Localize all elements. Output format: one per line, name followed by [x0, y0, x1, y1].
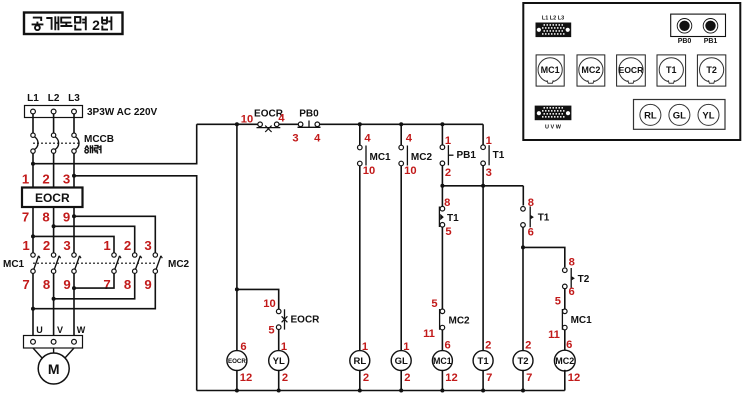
svg-text:10: 10 — [263, 298, 275, 310]
wire EOCR out 7 down to MC1 pole1 — [32, 207, 34, 253]
svg-text:T1: T1 — [478, 356, 490, 367]
wire L1 node to control top rail — [33, 124, 197, 163]
wire MC1 b-contact to MC2 coil — [564, 330, 566, 352]
MCCB label — [84, 134, 114, 154]
node line1 to MC2 pole1 — [31, 234, 35, 238]
node junction PB1 — [440, 184, 444, 188]
svg-text:11: 11 — [548, 329, 560, 341]
wire T1 contact down to T2 node — [522, 227, 524, 247]
svg-text:2: 2 — [363, 372, 369, 384]
svg-text:U V W: U V W — [545, 125, 562, 131]
wire T2 coil to bottom rail — [522, 370, 524, 391]
svg-text:V: V — [57, 325, 63, 335]
T1 coil — [473, 351, 493, 371]
svg-text:9: 9 — [63, 210, 70, 225]
wire junction corner down to T1 timer contact (T2 chain) — [522, 186, 524, 206]
wire U to motor — [33, 348, 43, 359]
wire line2 to MC2 pole2 top — [54, 226, 135, 253]
svg-text:U: U — [36, 325, 43, 335]
wire EOCR coil branch — [236, 124, 238, 351]
svg-text:T1: T1 — [538, 213, 550, 224]
wire MCCB2 to EOCR — [53, 153, 55, 188]
svg-text:3: 3 — [292, 133, 298, 145]
PB0 NC pushbutton — [292, 108, 321, 144]
MC2 a-contact branch — [399, 124, 433, 177]
node MC2-8 line2 — [52, 297, 56, 301]
node bottom rail MC1 — [440, 389, 444, 393]
node MC2-9 line1 — [31, 307, 35, 311]
motor terminal block UVW — [24, 336, 83, 349]
terminal block L1L2L3 — [536, 23, 572, 38]
MC2 power contact pole3 — [153, 253, 162, 274]
svg-text:2: 2 — [525, 340, 531, 352]
node on L1 feeding control rail — [31, 162, 35, 166]
L1 L2 L3 source labels — [27, 93, 80, 104]
svg-text:5: 5 — [268, 325, 274, 337]
wire YL coil to bottom rail — [278, 370, 280, 391]
top rail — [197, 123, 483, 125]
svg-text:12: 12 — [240, 372, 252, 384]
wire MC1 contact to RL coil — [359, 166, 361, 352]
wire EOCR contact to YL coil — [278, 329, 280, 351]
svg-text:10: 10 — [241, 114, 253, 126]
node T2 branch — [521, 245, 525, 249]
svg-text:6: 6 — [566, 339, 572, 351]
source terminal block TB1 — [25, 106, 83, 118]
node top rail MC2 branch — [399, 122, 403, 126]
panel enclosure — [523, 3, 740, 140]
node line3 to MC2 pole3 — [72, 214, 76, 218]
node on L3 feeding control bottom rail — [72, 174, 76, 178]
svg-text:10: 10 — [404, 165, 416, 177]
svg-text:6: 6 — [568, 286, 574, 298]
svg-text:L1 L2 L3: L1 L2 L3 — [542, 16, 564, 22]
wire T1 coil to bottom rail — [482, 370, 484, 391]
svg-text:7: 7 — [22, 277, 29, 292]
MC2 power contact pole1 — [112, 253, 121, 274]
MC2 power contact pole2 — [133, 253, 142, 274]
MCCB linkage dashed line — [33, 142, 80, 144]
EOCR coil — [227, 351, 247, 371]
pushbutton box PB0 PB1 — [671, 14, 726, 45]
wire junction down to T1 timer contact (MC1 chain) — [441, 186, 443, 207]
svg-text:7: 7 — [486, 372, 492, 384]
PB1 NO pushbutton branch — [440, 124, 476, 179]
svg-text:8: 8 — [444, 197, 450, 209]
svg-text:3: 3 — [63, 238, 70, 253]
wire MCCB3 to EOCR — [73, 153, 75, 188]
svg-text:MCCB: MCCB — [84, 134, 114, 145]
svg-text:7: 7 — [103, 277, 110, 292]
wire V to motor — [53, 348, 55, 353]
svg-text:2: 2 — [42, 172, 49, 187]
EOCR block (overcurrent relay) — [22, 188, 83, 208]
MC1 power contact pole2 — [51, 253, 60, 274]
wire EOCR out 8 down to MC1 pole2 — [53, 207, 55, 253]
T1 timer contact (8-6) — [521, 197, 550, 239]
EOCR a-contact to YL — [263, 298, 320, 337]
node bottom rail T1 — [481, 389, 485, 393]
wire T2 contact to MC1 b-contact — [564, 289, 566, 310]
svg-text:4: 4 — [364, 133, 371, 145]
svg-text:EOCR: EOCR — [228, 358, 246, 365]
RL coil — [350, 351, 370, 371]
svg-text:PB1: PB1 — [704, 38, 718, 45]
svg-text:MC2: MC2 — [411, 152, 433, 163]
pin labels 1 2 3 above MC1 power contacts — [22, 238, 70, 253]
svg-text:L1: L1 — [27, 93, 39, 104]
wire W to motor — [65, 348, 75, 359]
svg-text:T1: T1 — [493, 150, 505, 161]
svg-text:6: 6 — [444, 340, 450, 352]
svg-text:MC2: MC2 — [168, 259, 190, 270]
svg-text:1: 1 — [103, 238, 110, 253]
svg-text:MC1: MC1 — [571, 315, 593, 326]
svg-text:10: 10 — [363, 165, 375, 177]
svg-text:7: 7 — [22, 210, 29, 225]
lamp box RL GL YL — [634, 100, 726, 130]
svg-text:MC2: MC2 — [449, 316, 471, 327]
svg-text:T1: T1 — [447, 213, 459, 224]
svg-text:9: 9 — [63, 277, 70, 292]
svg-text:EOCR: EOCR — [35, 191, 70, 205]
wire line1 to MC2 pole1 top — [33, 236, 114, 253]
svg-text:3: 3 — [144, 238, 151, 253]
svg-text:5: 5 — [555, 296, 561, 308]
relay socket EOCR — [617, 55, 646, 86]
node top rail EOCR coil branch — [235, 122, 239, 126]
MCCB pole 2 — [51, 133, 58, 153]
wire MC1 coil to bottom rail — [441, 370, 443, 391]
svg-text:YL: YL — [702, 110, 714, 121]
relay socket T1 — [657, 55, 686, 86]
MC2 coil — [554, 350, 575, 371]
svg-text:1: 1 — [22, 238, 29, 253]
svg-text:L3: L3 — [68, 93, 80, 104]
wire EOCR coil to bottom rail — [236, 370, 238, 391]
title box "공개도면 2번" — [24, 13, 123, 35]
motor M — [38, 353, 69, 384]
svg-text:PB0: PB0 — [299, 108, 319, 119]
node junction T1 — [481, 184, 485, 188]
svg-text:8: 8 — [43, 277, 50, 292]
node bottom rail EOCR — [235, 389, 239, 393]
svg-text:1: 1 — [486, 135, 492, 147]
node top rail PB1 branch — [440, 122, 444, 126]
svg-text:6: 6 — [528, 227, 534, 239]
svg-text:T2: T2 — [578, 274, 590, 285]
wire MC2 coil to bottom rail — [564, 370, 566, 391]
svg-text:4: 4 — [278, 113, 285, 125]
MC1 power contact pole1 — [31, 253, 40, 274]
svg-text:5: 5 — [445, 226, 451, 238]
node MC2-7 line3 — [72, 286, 76, 290]
svg-text:1: 1 — [445, 135, 451, 147]
svg-text:2: 2 — [282, 372, 288, 384]
wire L3 drop to MCCB — [73, 114, 75, 133]
svg-text:MC1: MC1 — [541, 65, 560, 75]
relay socket MC2 — [577, 55, 605, 86]
wire T1 contact to junction — [482, 166, 484, 186]
wire MC2 pole2 out to line2 — [54, 273, 135, 299]
svg-text:12: 12 — [445, 372, 457, 384]
svg-text:12: 12 — [568, 372, 580, 384]
svg-text:11: 11 — [423, 328, 435, 340]
MC1 a-contact branch — [358, 124, 392, 177]
wire MC2 pole1 out to line3 — [74, 273, 114, 288]
svg-text:MC2: MC2 — [581, 65, 600, 75]
svg-text:8: 8 — [42, 210, 49, 225]
svg-text:T1: T1 — [666, 65, 677, 75]
pin labels 7 8 9 below MC1 — [22, 277, 70, 292]
svg-text:RL: RL — [644, 110, 657, 121]
wire RL coil to bottom rail — [359, 370, 361, 391]
svg-text:T2: T2 — [517, 356, 528, 367]
wire MCCB1 to EOCR — [32, 153, 34, 188]
MC2 b-contact (5-11) — [423, 298, 470, 340]
terminal block UVW — [535, 106, 572, 121]
svg-text:2: 2 — [124, 238, 131, 253]
wire MC1 pole1 to UVW — [32, 273, 34, 336]
svg-text:PB1: PB1 — [457, 150, 477, 161]
wire L2 drop to MCCB — [53, 114, 55, 133]
svg-text:GL: GL — [395, 356, 408, 367]
wire YL branch top — [237, 289, 279, 309]
wire PB1 to junction — [441, 166, 443, 186]
MC1 coil — [432, 351, 452, 371]
svg-text:8: 8 — [124, 277, 131, 292]
svg-text:GL: GL — [673, 110, 686, 121]
svg-text:MC1: MC1 — [433, 356, 452, 366]
wire EOCR out 9 down to MC1 pole3 — [73, 207, 75, 253]
pin labels 1 2 3 above MC2 power contacts — [103, 238, 151, 253]
svg-text:5: 5 — [431, 298, 437, 310]
GL coil — [391, 351, 411, 371]
wire MC2 pole3 out to line1 — [33, 273, 155, 309]
wire node to MC2 chain — [523, 247, 565, 267]
wire T1 contact to MC2 b-contact — [441, 227, 443, 309]
svg-text:2: 2 — [92, 17, 100, 33]
svg-text:MC1: MC1 — [370, 152, 392, 163]
relay socket T2 — [697, 55, 725, 86]
wire MC1 pole2 to UVW — [53, 273, 55, 336]
U V W labels — [36, 325, 86, 335]
svg-text:8: 8 — [569, 257, 575, 269]
T2 coil — [513, 351, 533, 371]
svg-text:EOCR: EOCR — [291, 315, 321, 326]
svg-text:7: 7 — [526, 372, 532, 384]
pin labels 7 8 9 below MC2 — [103, 277, 151, 292]
T1 a-contact parallel branch — [481, 124, 505, 179]
svg-text:YL: YL — [273, 356, 285, 367]
svg-text:9: 9 — [144, 277, 151, 292]
wire node down to T2 coil — [522, 247, 524, 351]
wire MC1 pole3 to UVW — [73, 273, 75, 336]
svg-text:8: 8 — [528, 197, 534, 209]
node top rail MC1 branch — [358, 122, 362, 126]
wire GL coil to bottom rail — [400, 370, 402, 391]
node YL tap — [235, 287, 239, 291]
relay socket MC1 — [536, 55, 564, 86]
MC linkage dashed line — [33, 262, 155, 264]
svg-text:W: W — [77, 325, 86, 335]
EOCR b-contact on rail — [241, 108, 286, 132]
svg-text:T2: T2 — [706, 65, 717, 75]
T1 timer contact (8-5) — [439, 197, 459, 238]
wire junction to T1 coil — [482, 186, 484, 352]
junction bus y186 — [442, 185, 523, 187]
MC1 b-contact (5-11) — [548, 296, 592, 341]
svg-text:PB0: PB0 — [678, 38, 692, 45]
wire L1 drop to MCCB — [32, 114, 34, 133]
svg-text:2: 2 — [485, 340, 491, 352]
node bottom rail T2 — [521, 389, 525, 393]
node line2 to MC2 pole2 — [52, 224, 56, 228]
MC1 power contact pole3 — [72, 253, 81, 274]
YL coil — [269, 351, 289, 371]
node bottom rail GL — [399, 389, 403, 393]
svg-text:2: 2 — [445, 167, 451, 179]
svg-text:MC1: MC1 — [3, 259, 25, 270]
svg-text:4: 4 — [314, 133, 321, 145]
svg-text:1: 1 — [22, 172, 29, 187]
pin labels 1 2 3 above EOCR — [22, 172, 70, 187]
svg-text:RL: RL — [353, 356, 366, 367]
node bottom rail YL — [277, 389, 281, 393]
node bottom rail RL — [358, 389, 362, 393]
svg-text:L2: L2 — [48, 93, 60, 104]
svg-text:4: 4 — [406, 133, 413, 145]
svg-text:3P3W AC 220V: 3P3W AC 220V — [87, 107, 158, 118]
MCCB pole 3 — [72, 133, 79, 153]
svg-text:3: 3 — [486, 167, 492, 179]
svg-text:MC2: MC2 — [555, 356, 574, 366]
pin labels 7 8 9 below EOCR — [22, 210, 70, 225]
svg-text:M: M — [48, 361, 60, 377]
svg-text:3: 3 — [63, 172, 70, 187]
svg-text:2: 2 — [404, 372, 410, 384]
svg-text:2: 2 — [43, 238, 50, 253]
T2 timer contact (8-6) — [563, 257, 590, 298]
bottom rail — [197, 390, 565, 392]
svg-text:EOCR: EOCR — [619, 65, 644, 75]
wire MC2 b-contact to MC1 coil — [441, 330, 443, 352]
wire L3 node to control bottom rail — [74, 176, 197, 391]
wire MC2 contact to GL coil — [400, 166, 402, 352]
wire line3 to MC2 pole3 top — [74, 216, 155, 253]
MCCB pole 1 — [31, 133, 38, 153]
